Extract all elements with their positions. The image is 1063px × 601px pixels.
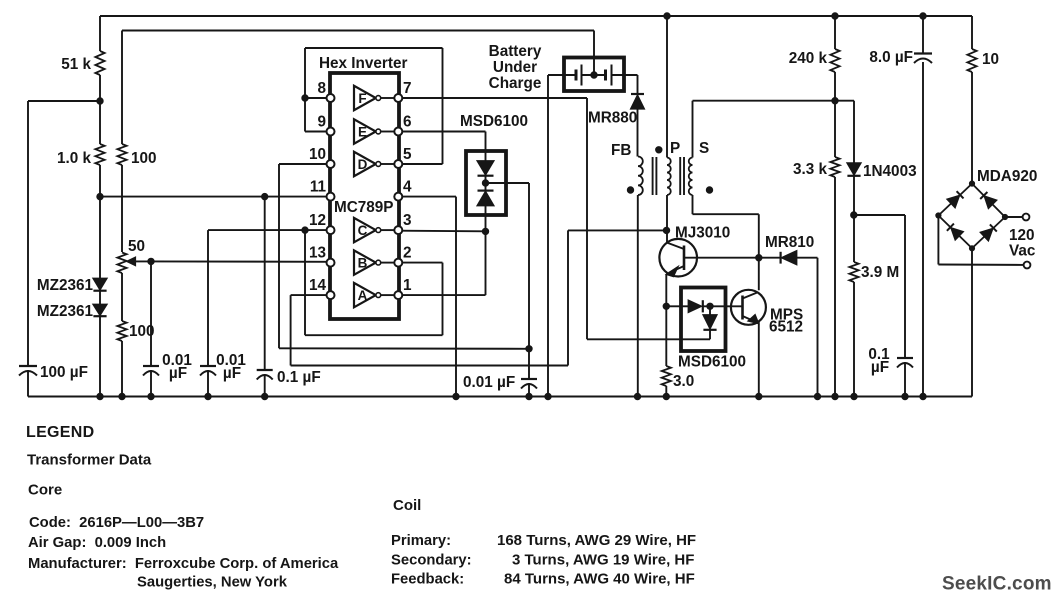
svg-text:3.0: 3.0: [673, 373, 694, 390]
svg-text:2: 2: [403, 245, 412, 262]
svg-text:Hex Inverter: Hex Inverter: [319, 55, 407, 72]
svg-text:Code: 2616P—L00—3B7: Code: 2616P—L00—3B7: [29, 515, 204, 531]
svg-text:3.3 k: 3.3 k: [793, 161, 828, 178]
svg-text:10: 10: [309, 146, 326, 163]
svg-text:120: 120: [1009, 227, 1035, 244]
svg-text:MC789P: MC789P: [334, 199, 394, 216]
svg-text:D: D: [358, 157, 368, 172]
svg-text:51 k: 51 k: [61, 56, 91, 73]
svg-text:12: 12: [309, 212, 326, 229]
svg-text:0.1 µF: 0.1 µF: [277, 369, 321, 386]
svg-text:1.0 k: 1.0 k: [57, 150, 92, 167]
svg-text:Under: Under: [493, 59, 537, 76]
svg-text:14: 14: [309, 277, 327, 294]
svg-text:µF: µF: [169, 365, 187, 382]
svg-text:3 Turns, AWG 19 Wire, HF: 3 Turns, AWG 19 Wire, HF: [512, 552, 694, 569]
svg-text:5: 5: [403, 146, 412, 163]
svg-text:Manufacturer: Ferroxcube Corp: Manufacturer: Ferroxcube Corp. of Americ…: [28, 556, 339, 572]
svg-text:13: 13: [309, 245, 326, 262]
svg-text:Primary:: Primary:: [391, 533, 451, 549]
svg-text:Battery: Battery: [489, 43, 542, 60]
svg-text:Feedback:: Feedback:: [391, 572, 464, 588]
svg-text:1N4003: 1N4003: [863, 163, 917, 180]
svg-text:0.01 µF: 0.01 µF: [463, 374, 515, 391]
svg-text:Air Gap: 0.009 Inch: Air Gap: 0.009 Inch: [28, 535, 166, 551]
svg-text:B: B: [358, 256, 368, 271]
svg-text:LEGEND: LEGEND: [26, 424, 94, 441]
svg-text:Vac: Vac: [1009, 243, 1036, 260]
svg-text:A: A: [358, 288, 368, 303]
svg-text:Charge: Charge: [489, 75, 542, 92]
svg-text:C: C: [358, 223, 368, 238]
svg-text:100 µF: 100 µF: [40, 364, 88, 381]
svg-text:S: S: [699, 140, 709, 157]
svg-text:100: 100: [129, 323, 155, 340]
svg-text:MZ2361: MZ2361: [37, 277, 94, 294]
svg-text:MR880: MR880: [588, 110, 637, 127]
svg-text:Coil: Coil: [393, 497, 421, 514]
svg-text:6512: 6512: [769, 319, 803, 336]
svg-text:84 Turns, AWG 40 Wire, HF: 84 Turns, AWG 40 Wire, HF: [504, 571, 695, 588]
svg-text:MJ3010: MJ3010: [675, 225, 730, 242]
svg-text:8.0 µF: 8.0 µF: [869, 49, 913, 66]
svg-text:240 k: 240 k: [789, 50, 828, 67]
svg-text:Secondary:: Secondary:: [391, 553, 472, 569]
svg-text:Core: Core: [28, 482, 62, 499]
svg-text:3.9 M: 3.9 M: [861, 264, 899, 281]
svg-text:MR810: MR810: [765, 234, 814, 251]
svg-text:P: P: [670, 140, 680, 157]
svg-text:9: 9: [317, 114, 326, 131]
svg-text:168 Turns, AWG 29 Wire, HF: 168 Turns, AWG 29 Wire, HF: [497, 532, 696, 549]
svg-text:50: 50: [128, 238, 145, 255]
svg-text:11: 11: [310, 179, 327, 196]
svg-text:MSD6100: MSD6100: [678, 354, 746, 371]
svg-text:MZ2361: MZ2361: [37, 303, 94, 320]
svg-text:MSD6100: MSD6100: [460, 113, 528, 130]
svg-text:7: 7: [403, 80, 412, 97]
svg-text:Transformer Data: Transformer Data: [27, 452, 152, 469]
svg-text:Saugerties, New York: Saugerties, New York: [137, 575, 288, 591]
svg-text:SeekIC.com: SeekIC.com: [942, 574, 1052, 595]
svg-text:4: 4: [403, 179, 412, 196]
svg-text:FB: FB: [611, 142, 631, 159]
svg-text:MDA920: MDA920: [977, 168, 1037, 185]
svg-text:1: 1: [403, 277, 412, 294]
svg-text:F: F: [358, 91, 366, 106]
svg-text:E: E: [358, 125, 367, 140]
svg-text:6: 6: [403, 114, 412, 131]
svg-text:100: 100: [131, 150, 157, 167]
svg-text:3: 3: [403, 212, 412, 229]
svg-text:10: 10: [982, 51, 999, 68]
svg-text:µF: µF: [871, 359, 889, 376]
svg-text:8: 8: [317, 80, 326, 97]
svg-text:µF: µF: [223, 365, 241, 382]
